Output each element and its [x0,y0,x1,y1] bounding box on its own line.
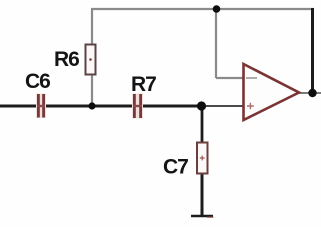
wire C6 to R7 [45,105,133,108]
capacitor C7 [197,143,208,174]
wire R6 top lead [91,9,93,45]
svg-text:R7: R7 [131,73,156,96]
wire C7 top lead [201,106,204,142]
ground [191,216,214,217]
plus mark inside op-amp [247,103,254,109]
resistor R7 [132,94,143,119]
svg-text:R6: R6 [54,48,79,71]
wire minus-input vertical drop [215,9,217,78]
wire output feedback vertical [311,8,314,93]
wire op-amp apex to output node [297,92,321,94]
node D (output junction) [308,89,316,97]
wire node B to op-amp plus input [202,105,246,107]
node C (top feedback junction) [213,5,221,13]
wire top feedback horizontal [91,8,314,10]
wire input lead to C6 [0,105,37,108]
wire R6 bottom lead [91,75,93,107]
node B (C7 junction) [197,101,206,110]
capacitor C6 [36,94,46,119]
minus mark inside op-amp [246,77,257,79]
wire C7 bottom lead [201,174,204,215]
svg-text:C7: C7 [163,156,188,179]
wire R7 to node B [142,105,202,108]
op-amp U1 [244,64,300,120]
svg-text:C6: C6 [25,70,50,93]
wire minus-input horizontal lead [216,77,257,79]
node A (R6 junction) [88,102,95,109]
resistor R6 [86,45,96,75]
